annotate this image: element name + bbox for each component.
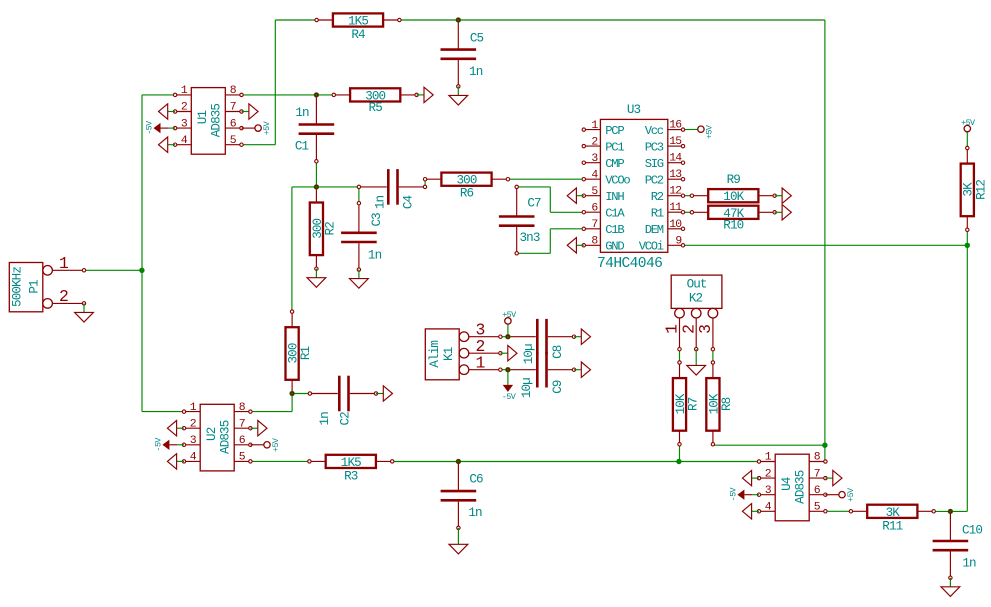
svg-text:U1: U1 xyxy=(196,111,210,125)
svg-text:14: 14 xyxy=(669,153,682,165)
svg-text:16: 16 xyxy=(669,120,682,132)
svg-text:10: 10 xyxy=(669,219,682,231)
svg-text:+5V: +5V xyxy=(262,121,272,135)
svg-text:R6: R6 xyxy=(460,186,474,200)
svg-text:R3: R3 xyxy=(344,469,358,483)
junction node R2/C1 xyxy=(314,184,319,189)
ground at C3 xyxy=(350,270,369,289)
wire U3 pin9 to R12 net xyxy=(683,244,967,246)
U4 pin 4 port arrow xyxy=(742,504,759,519)
junction node R12/U3.9 xyxy=(965,243,970,248)
U4 pin 2 port arrow xyxy=(742,470,759,485)
wire U4 pin1 to R7 junction xyxy=(679,461,759,463)
svg-text:R5: R5 xyxy=(369,101,383,115)
svg-text:GND: GND xyxy=(605,240,624,254)
svg-text:7: 7 xyxy=(814,468,820,480)
resistor R12 (3K) xyxy=(961,146,989,231)
wire R8 to riser junction xyxy=(713,444,825,446)
svg-text:500KHz: 500KHz xyxy=(11,267,25,307)
wire right vertical bus 2 xyxy=(966,245,968,511)
wire at C1 top xyxy=(315,94,317,96)
wire C7 bottom to U3 pin7 xyxy=(550,228,584,230)
+5V power at K1 pin 3 xyxy=(502,310,516,324)
capacitor C9 (10u) xyxy=(506,352,576,388)
U2 pin 4 port arrow xyxy=(167,454,184,469)
IC U3 (74HC4046 PLL) xyxy=(582,103,685,272)
svg-text:+5V: +5V xyxy=(961,118,975,128)
wire C1/C4 row xyxy=(292,186,359,188)
svg-text:INH: INH xyxy=(605,190,624,204)
svg-text:AD835: AD835 xyxy=(210,104,224,138)
U1 pin 7 port arrow xyxy=(242,104,259,119)
svg-text:1n: 1n xyxy=(468,506,482,520)
svg-text:R10: R10 xyxy=(723,219,743,233)
wire main row mid xyxy=(458,461,679,463)
svg-text:C1: C1 xyxy=(295,140,309,154)
svg-text:R1: R1 xyxy=(299,347,313,361)
capacitor C8 (10u) xyxy=(506,319,576,355)
wire U4 pin5 to R11 xyxy=(825,510,851,512)
svg-text:-5V: -5V xyxy=(154,438,164,452)
svg-text:R11: R11 xyxy=(882,519,902,533)
resistor R5 (300) xyxy=(332,88,418,115)
junction node C1/R5/U1.8 xyxy=(314,92,319,97)
connector K1 (Alim power input) xyxy=(425,321,502,380)
capacitor C6 (1n) xyxy=(441,460,477,530)
port arrow at K1 pin 2 xyxy=(500,346,517,361)
svg-text:PCP: PCP xyxy=(605,124,624,138)
svg-text:P1: P1 xyxy=(28,280,42,294)
resistor R1 (300) xyxy=(286,310,314,395)
capacitor C7 (3n3) xyxy=(499,185,535,255)
+5V power at U1 pin 6 xyxy=(242,121,272,135)
svg-text:AD835: AD835 xyxy=(219,420,233,454)
wire C7 bottom b xyxy=(549,229,551,254)
port arrow at U3 pin 8 GND xyxy=(567,238,584,253)
resistor R11 (3K) xyxy=(849,505,935,534)
wire C7 top b xyxy=(549,187,551,212)
wire U2 pin8 riser xyxy=(291,394,293,412)
wire top net to R4 xyxy=(275,19,316,21)
resistor R7 (10K) xyxy=(673,361,701,446)
svg-text:C4: C4 xyxy=(401,196,415,210)
wire K2 pin1 to R7 xyxy=(679,349,681,362)
svg-text:U4: U4 xyxy=(780,477,794,491)
wire U1 pin8 to R5 xyxy=(242,94,334,96)
svg-text:R8: R8 xyxy=(720,397,734,411)
svg-text:-5V: -5V xyxy=(729,487,739,501)
svg-text:+5V: +5V xyxy=(704,125,714,139)
capacitor C1 (1n) xyxy=(299,93,335,163)
svg-text:Out: Out xyxy=(687,278,707,292)
wire P1 pin1 to bus xyxy=(84,269,142,271)
svg-text:12: 12 xyxy=(669,186,682,198)
svg-text:3n3: 3n3 xyxy=(520,231,540,245)
wire down to R1 xyxy=(291,187,293,312)
svg-text:U2: U2 xyxy=(205,427,219,441)
junction node P1/left bus xyxy=(139,268,144,273)
svg-text:AD835: AD835 xyxy=(794,470,808,504)
resistor R2 (300) xyxy=(310,185,338,270)
svg-text:PC2: PC2 xyxy=(645,173,664,187)
svg-text:Vcc: Vcc xyxy=(645,124,664,138)
+5V power at U4 pin 6 xyxy=(825,488,855,502)
wire K1 pin1 to junction xyxy=(500,369,508,371)
port arrow at R5 output xyxy=(417,87,434,102)
svg-text:PC3: PC3 xyxy=(645,140,664,154)
svg-text:C8: C8 xyxy=(551,345,565,359)
wire U3 pin11 to R10 xyxy=(683,211,692,213)
resistor R4 (1K5) xyxy=(315,13,401,42)
svg-text:R7: R7 xyxy=(687,397,701,411)
svg-text:2: 2 xyxy=(59,287,68,306)
port arrow at U3 pin 5 INH xyxy=(567,188,584,203)
resistor R6 (300) xyxy=(423,173,509,201)
junction node R7/main row xyxy=(676,459,681,464)
junction node R8/riser xyxy=(822,443,827,448)
svg-text:R9: R9 xyxy=(727,173,741,187)
wire riser to U4 pin8 xyxy=(824,445,826,461)
wire to U1 pin1 xyxy=(142,94,175,96)
wire +5V to K1 junction xyxy=(507,324,509,337)
svg-text:1K5: 1K5 xyxy=(348,15,368,29)
svg-text:10K: 10K xyxy=(723,190,744,204)
U1 pin 4 port arrow xyxy=(159,137,176,152)
svg-text:3: 3 xyxy=(696,325,715,334)
svg-text:R4: R4 xyxy=(351,28,365,42)
wire R4 to right corner xyxy=(399,19,825,21)
svg-text:1K5: 1K5 xyxy=(341,456,361,470)
svg-text:11: 11 xyxy=(669,202,682,214)
svg-text:15: 15 xyxy=(669,136,682,148)
svg-text:+5V: +5V xyxy=(846,488,856,502)
svg-text:1n: 1n xyxy=(469,65,483,79)
svg-text:1: 1 xyxy=(476,354,486,373)
svg-text:+5V: +5V xyxy=(502,310,516,320)
wire K2 pin3 to R8 xyxy=(712,349,714,362)
ground at K2 pin 2 xyxy=(687,349,706,375)
svg-text:-5V: -5V xyxy=(502,392,516,402)
wire right vertical riser xyxy=(824,20,826,445)
svg-text:C10: C10 xyxy=(962,523,982,537)
port arrow at R9 output xyxy=(775,188,792,203)
svg-text:C2: C2 xyxy=(338,412,352,426)
wire R8 bottom stub xyxy=(712,443,714,446)
wire corner to C10 junction xyxy=(950,510,967,512)
op-amp U4 (AD835 multiplier) xyxy=(757,452,827,521)
svg-text:R12: R12 xyxy=(974,180,988,200)
svg-text:DEM: DEM xyxy=(645,223,664,237)
svg-text:3K: 3K xyxy=(886,506,901,520)
port arrow at R10 output xyxy=(775,205,792,220)
wire R6 to U3 pin4 xyxy=(508,178,584,180)
svg-text:C3: C3 xyxy=(370,213,384,227)
U2 pin 7 port arrow xyxy=(250,421,267,436)
svg-text:C9: C9 xyxy=(551,380,565,394)
svg-text:R2: R2 xyxy=(323,222,337,236)
svg-text:7: 7 xyxy=(230,102,236,114)
-5V power at U2 pin 3 xyxy=(154,438,184,452)
wire U3 pin16 to +5V xyxy=(683,128,698,130)
wire left vertical bus xyxy=(141,95,143,412)
port arrow at C2 output xyxy=(376,386,393,401)
wire +5V to R12 xyxy=(966,132,968,148)
wire vertical to U1 pin5 xyxy=(274,20,276,145)
capacitor C4 (1n) xyxy=(357,169,427,205)
ground at C6 xyxy=(449,528,468,554)
wire junction to C2 xyxy=(292,393,310,395)
ground at P1 pin 2 xyxy=(75,303,94,322)
+5V power at U3 pin 16 xyxy=(698,125,715,139)
svg-text:1n: 1n xyxy=(295,106,309,120)
junction node K1.3/+5V/C8 xyxy=(505,334,510,339)
+5V power at R12 top xyxy=(961,118,975,132)
-5V power at U1 pin 3 xyxy=(145,121,175,135)
capacitor C3 (1n) xyxy=(341,202,377,272)
resistor R8 (10K) xyxy=(706,361,734,446)
svg-text:13: 13 xyxy=(669,169,682,181)
+5V power at U2 pin 6 xyxy=(250,438,280,452)
resistor R10 (47K) xyxy=(690,206,776,233)
svg-text:SIG: SIG xyxy=(645,157,664,171)
svg-text:10µ: 10µ xyxy=(522,344,536,364)
svg-text:C6: C6 xyxy=(469,473,483,487)
svg-text:1n: 1n xyxy=(373,196,387,210)
svg-text:7: 7 xyxy=(239,418,245,430)
wire C7 bottom a xyxy=(517,252,551,254)
svg-text:1n: 1n xyxy=(962,556,976,570)
wire main row to R3 xyxy=(392,461,458,463)
wire bus to U2 pin1 xyxy=(142,411,184,413)
wire U3 pin12 to R9 xyxy=(683,195,692,197)
port arrow at C9 output xyxy=(574,362,591,377)
U4 pin 7 port arrow xyxy=(825,470,842,485)
connector K2 (Out) xyxy=(663,275,722,351)
wire jog to C3 xyxy=(358,187,360,203)
svg-text:C1B: C1B xyxy=(605,223,624,237)
ground at C10 xyxy=(941,578,960,597)
wire R12 to junction xyxy=(966,230,968,246)
resistor R9 (10K) xyxy=(690,173,776,204)
wire R11 to junction xyxy=(934,510,951,512)
svg-text:7: 7 xyxy=(591,219,597,231)
svg-text:K2: K2 xyxy=(689,292,703,306)
port arrow at C8 output xyxy=(574,329,591,344)
svg-text:U3: U3 xyxy=(627,103,641,117)
svg-text:VCOi: VCOi xyxy=(639,240,664,254)
svg-text:Alim: Alim xyxy=(428,341,442,368)
ground at R2 xyxy=(307,269,326,288)
capacitor C10 (1n) xyxy=(933,510,969,580)
wire C7 top to U3 pin6 xyxy=(550,211,584,213)
wire U2 pin8 a xyxy=(250,411,292,413)
wire to U1 pin5 xyxy=(242,144,276,146)
wire K1 junction to -5V xyxy=(507,370,509,385)
-5V power at K1 pin 1 xyxy=(502,385,516,402)
capacitor C2 (1n) xyxy=(308,376,378,412)
junction node C10/R11 xyxy=(948,509,953,514)
svg-text:C1A: C1A xyxy=(605,206,625,220)
svg-text:1n: 1n xyxy=(368,248,382,262)
U2 pin 2 port arrow xyxy=(167,421,184,436)
wire jog C4 to R6 xyxy=(424,179,426,187)
ground at C5 xyxy=(449,86,468,105)
op-amp U2 (AD835 multiplier) xyxy=(182,402,252,471)
U1 pin 2 port arrow xyxy=(159,104,176,119)
svg-text:C5: C5 xyxy=(470,32,484,46)
wire stub R5 arrow xyxy=(416,94,418,96)
connector P1 (500KHz input) xyxy=(9,254,85,312)
junction node C6/main row xyxy=(456,459,461,464)
svg-text:74HC4046: 74HC4046 xyxy=(597,256,662,272)
svg-text:1n: 1n xyxy=(318,412,332,426)
svg-text:+5V: +5V xyxy=(271,438,281,452)
junction node K1.1/-5V/C9 xyxy=(505,367,510,372)
svg-text:10µ: 10µ xyxy=(520,378,534,398)
svg-text:PC1: PC1 xyxy=(605,140,624,154)
svg-text:-5V: -5V xyxy=(145,121,155,135)
svg-text:VCOo: VCOo xyxy=(605,173,630,187)
wire K1 pin3 to junction xyxy=(500,336,508,338)
capacitor C5 (1n) xyxy=(441,18,477,88)
wire C7 top a xyxy=(517,186,551,188)
svg-text:K1: K1 xyxy=(442,347,456,361)
junction node C5/top net xyxy=(456,17,461,22)
svg-text:R2: R2 xyxy=(651,190,664,204)
-5V power at U4 pin 3 xyxy=(729,487,759,501)
svg-text:R1: R1 xyxy=(651,206,664,220)
wire R7 to main row xyxy=(679,444,681,461)
svg-text:CMP: CMP xyxy=(605,157,624,171)
resistor R3 (1K5) xyxy=(308,455,394,484)
op-amp U1 (AD835 multiplier) xyxy=(173,85,243,154)
wire R3 to U2 pin5 xyxy=(250,460,309,462)
junction node R1/C2/U2.8 xyxy=(289,391,294,396)
wire C1 bottom xyxy=(315,161,317,187)
svg-text:C7: C7 xyxy=(527,197,541,211)
svg-text:1: 1 xyxy=(59,254,69,273)
